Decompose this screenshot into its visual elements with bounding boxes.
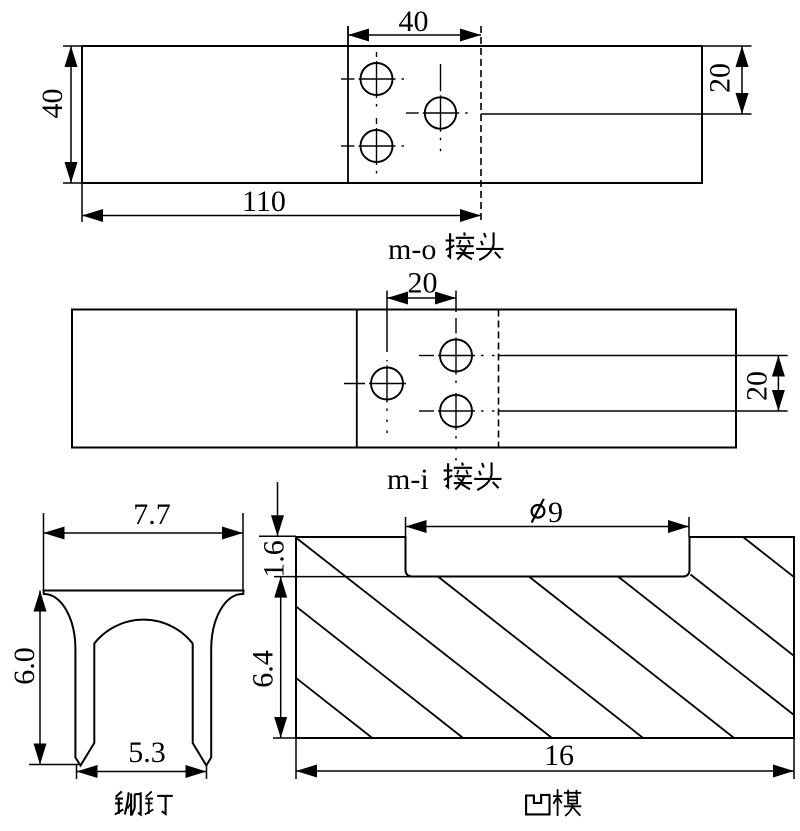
die hatching (297, 539, 552, 739)
svg-text:20: 20 (741, 371, 774, 401)
label die (526, 795, 549, 815)
svg-text:20: 20 (408, 267, 438, 300)
plate m-i inner edge line (356, 310, 358, 448)
dimension 40 (top, m-o) (348, 34, 481, 36)
svg-text:40: 40 (399, 5, 429, 38)
plate m-o outline (82, 46, 702, 183)
svg-text:20: 20 (704, 63, 737, 93)
solid extension line right of hole 3 (481, 113, 752, 115)
centerline vertical through holes 1-2 (376, 52, 378, 57)
centerline vertical hole 3 (440, 64, 442, 91)
svg-text:9: 9 (548, 496, 563, 529)
hole 5 (top-right) of m-i plate (440, 340, 472, 372)
dimension 1.6 (left top, die) (259, 535, 296, 537)
dimension 20 (top, m-i) (387, 297, 456, 299)
die outline with cavity (296, 537, 794, 738)
centerline horizontal hole 2 (341, 145, 355, 147)
dimension 5.3 (bottom, rivet) (76, 765, 78, 779)
svg-text:6.0: 6.0 (8, 647, 41, 685)
plate m-i dashed joint line (498, 310, 500, 448)
plate m-o inner edge line (347, 26, 349, 183)
svg-text:40: 40 (36, 89, 69, 119)
svg-text:m-o: m-o (388, 233, 436, 266)
centerline vertical hole 4 + extension to dim (386, 291, 388, 353)
svg-text:7.7: 7.7 (133, 498, 171, 531)
dimension 6.4 (left, die) (273, 737, 296, 739)
hole 6 (bottom-right) of m-i plate (440, 395, 472, 427)
svg-text:16: 16 (544, 739, 574, 772)
svg-text:6.4: 6.4 (247, 650, 280, 688)
svg-text:5.3: 5.3 (128, 736, 166, 769)
plate m-o dashed joint line (480, 26, 482, 222)
label rivet (115, 791, 141, 815)
hole 3 (middle) of m-o plate (425, 97, 456, 128)
hole 2 (bottom-left) of m-o plate (361, 130, 393, 162)
hole 4 (left) of m-i plate (371, 368, 403, 400)
dimension 16 (bottom, die) (295, 738, 297, 779)
phi symbol (532, 499, 545, 523)
dimension 20 (right, m-i) (777, 356, 779, 412)
centerline horizontal hole 1 (341, 78, 355, 80)
plate m-i outline (72, 310, 736, 448)
dimension phi9 (cavity, die) (405, 517, 407, 537)
svg-text:m-i: m-i (387, 463, 429, 496)
centerline horizontal hole 5 with extension (419, 355, 434, 357)
centerline horizontal hole 3 with extension to right (406, 112, 419, 114)
centerline horizontal hole 4 (344, 383, 365, 385)
hole 1 (top-left) of m-o plate (361, 63, 393, 95)
dimension 6.0 (left, rivet) (29, 764, 80, 766)
svg-text:110: 110 (242, 185, 286, 218)
dimension 110 (bottom, m-o) (81, 183, 83, 222)
svg-text:1.6: 1.6 (258, 540, 291, 578)
centerline vertical holes 5-6 + extension to dim (455, 291, 457, 313)
centerline horizontal hole 6 with extension (419, 410, 434, 412)
dimension 40 (left, m-o) (63, 45, 82, 47)
dimension 20 (right, m-o) (702, 45, 752, 47)
dimension 7.7 (top, rivet) (43, 513, 45, 591)
rivet outline (44, 591, 244, 766)
